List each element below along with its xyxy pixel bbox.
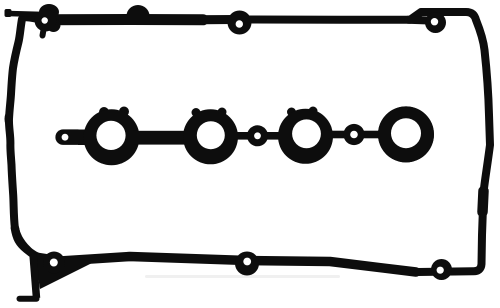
right rail notch step [483, 191, 484, 212]
left edge small bump [5, 111, 13, 127]
bolt hole top-left [42, 17, 48, 23]
bolt hole bottom-middle [243, 258, 251, 266]
cam ring 4 hole [391, 118, 421, 148]
top-left stub [8, 14, 44, 15]
hump over corner boss [39, 4, 59, 20]
inter boss 1 hole [254, 132, 261, 139]
bolt boss top-middle [228, 11, 252, 35]
bolt hole bottom-right [437, 267, 444, 274]
top bump over rail [127, 5, 150, 16]
bolt boss bottom-right [431, 259, 452, 280]
cam ring nubs [99, 107, 318, 118]
camshaft gasket left tab [55, 129, 85, 145]
thin bar ring3-ring4 [328, 131, 383, 139]
top-left stub tick [5, 9, 12, 17]
bolt hole top-right [431, 18, 438, 25]
left rail slightly thicker low part [15, 228, 27, 250]
cam ring 3 [278, 109, 333, 164]
corner boss spur [43, 27, 45, 36]
bolt hole top-middle [236, 20, 243, 27]
bottom-left leg [33, 254, 37, 298]
top rail thicker left portion [48, 14, 203, 25]
bottom-left wedge gusset [34, 252, 95, 289]
bolt boss top-left [35, 10, 57, 32]
inter boss 1 [247, 125, 268, 146]
corner boss tail [47, 18, 61, 32]
bar ring1-ring2 [133, 131, 188, 145]
bottom rail thicker overlay [60, 257, 416, 273]
cam ring 4 (flat top-left chamfer) [378, 106, 434, 162]
top rail continues under step into boss [408, 16, 429, 25]
bottom-left foot [20, 296, 37, 302]
camshaft gasket tab hole [62, 134, 69, 141]
cam ring 2 hole [197, 121, 225, 149]
bolt boss bottom-left [43, 252, 65, 274]
bolt boss top-right [425, 12, 446, 33]
bar tab to ring1 [78, 130, 98, 146]
cam ring 1 [84, 109, 140, 165]
thin bar ring2-ring3 [233, 132, 283, 140]
inter boss 2 hole [350, 131, 358, 139]
cam ring 1 hole [96, 121, 125, 150]
faint shadow under bottom rail [145, 275, 340, 278]
bolt boss bottom-middle [235, 252, 259, 276]
cam ring 2 [183, 109, 238, 164]
inter boss 2 [343, 124, 364, 145]
bolt hole bottom-left [50, 259, 58, 267]
cam ring 3 hole [292, 119, 321, 148]
